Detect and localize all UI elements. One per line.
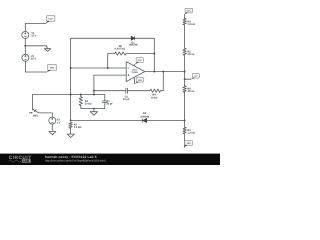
svg-text:10 kΩ: 10 kΩ: [151, 96, 158, 99]
svg-text:1 V: 1 V: [57, 121, 61, 124]
svg-text:SW1: SW1: [33, 114, 39, 117]
svg-text:hannah.casey : ECE3122 Lab 5: hannah.casey : ECE3122 Lab 5: [45, 155, 97, 159]
svg-text:VCC: VCC: [138, 59, 143, 62]
svg-text:10 kΩ: 10 kΩ: [85, 103, 92, 106]
svg-text:TL081: TL081: [131, 71, 138, 74]
svg-text:1.2 kΩ: 1.2 kΩ: [187, 132, 195, 135]
svg-text:1N4148: 1N4148: [140, 116, 149, 119]
svg-text:VCC: VCC: [187, 10, 192, 13]
svg-text:VEE: VEE: [138, 79, 143, 82]
svg-text:0.007 kΩ: 0.007 kΩ: [115, 47, 125, 50]
svg-text:470 Ω: 470 Ω: [187, 90, 194, 93]
svg-text:470 Ω: 470 Ω: [187, 53, 194, 56]
svg-text:VEE: VEE: [50, 66, 55, 69]
svg-text:15 V: 15 V: [31, 57, 36, 60]
svg-text:1.2 kΩ: 1.2 kΩ: [187, 23, 195, 26]
svg-text:LAB: LAB: [23, 159, 30, 163]
svg-text:15 V: 15 V: [31, 34, 36, 37]
svg-text:out: out: [194, 75, 197, 78]
svg-text:1.0 kΩ: 1.0 kΩ: [74, 126, 82, 129]
svg-text:http://circuitlab.com/c/7w78qm: http://circuitlab.com/c/7w78qm85jd/ece31…: [45, 159, 106, 162]
svg-text:10 µF: 10 µF: [106, 103, 113, 106]
svg-text:VCC: VCC: [48, 17, 53, 20]
svg-text:1N4148: 1N4148: [129, 44, 138, 47]
svg-text:VEE: VEE: [187, 142, 192, 145]
svg-text:10 µF: 10 µF: [123, 98, 130, 101]
